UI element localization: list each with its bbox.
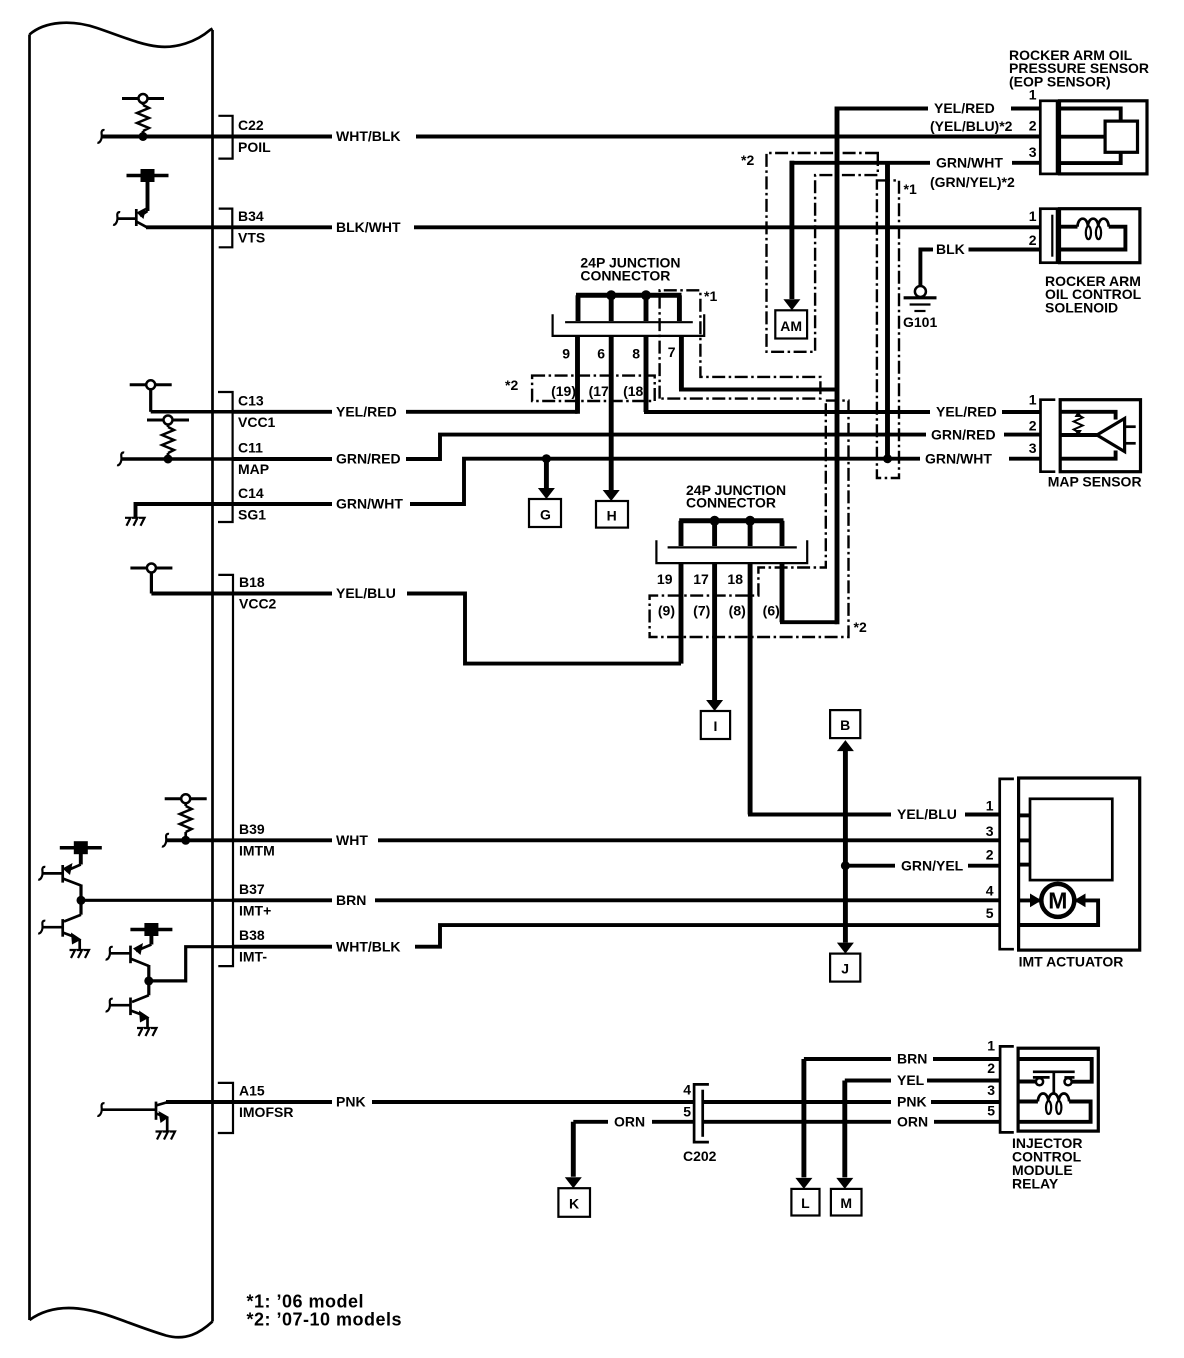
injector control module relay body xyxy=(1018,1048,1098,1131)
svg-text:M: M xyxy=(1048,888,1067,914)
wire B34 VTS inside ECM xyxy=(146,225,233,229)
svg-text:3: 3 xyxy=(986,823,994,839)
svg-text:I: I xyxy=(713,718,717,734)
label ROCKER ARM OIL PRESSURE SENSOR (EOP SENSOR) xyxy=(1009,47,1149,89)
svg-text:2: 2 xyxy=(1029,232,1037,248)
wire C13 VCC1 inside ECM xyxy=(151,410,233,414)
junction dot top bus pin 8 xyxy=(641,290,651,300)
transistor Q5 at B34 with power square xyxy=(113,169,168,227)
svg-text:*1: *1 xyxy=(904,181,917,197)
svg-text:MAP: MAP xyxy=(238,461,269,477)
junction dot G branch on GRN/WHT xyxy=(542,454,551,463)
pin label C14/SG1 xyxy=(238,485,266,522)
transistor Q6 at A15 xyxy=(97,1102,169,1132)
pull-up resistor at B39 xyxy=(165,794,207,840)
wire BLK/WHT from B34 to solenoid pin 1 xyxy=(233,225,1040,229)
wire junction pin 7 (*1 route) to EOP YEL/RED trunk xyxy=(679,336,837,390)
wire junction pin 17 down to arrow I xyxy=(712,563,717,701)
pin label C22/POIL xyxy=(238,117,271,155)
svg-text:YEL/RED: YEL/RED xyxy=(934,100,995,116)
svg-text:AM: AM xyxy=(780,318,802,334)
wire YEL/BLU from B18 to junction pin 19 xyxy=(233,563,681,664)
transistor pair Q3/Q4 at B38 with power square xyxy=(106,923,173,1028)
ECM torn-edge boundary xyxy=(30,23,213,1338)
wire GRN/YEL trunk between arrows B and J xyxy=(843,749,848,943)
ground G101 xyxy=(904,286,937,311)
arrow I xyxy=(701,700,730,739)
junction dot GRN/YEL xyxy=(841,861,850,870)
svg-text:YEL/RED: YEL/RED xyxy=(336,404,397,420)
label 24P JUNCTION CONNECTOR (bottom) xyxy=(686,482,786,511)
junction dot B37 xyxy=(77,896,86,905)
svg-text:CONNECTOR: CONNECTOR xyxy=(686,495,776,511)
svg-text:CONNECTOR: CONNECTOR xyxy=(580,267,670,283)
wire junction pin 18 to IMT actuator pin 1 YEL/BLU xyxy=(748,563,1000,814)
svg-text:C11: C11 xyxy=(238,440,263,456)
5V reference at C13 xyxy=(130,380,172,412)
dash-dot *2 envelope around AM branch xyxy=(767,153,878,352)
transistor pair Q1/Q2 at B37 with power square xyxy=(38,841,102,950)
svg-text:(EOP SENSOR): (EOP SENSOR) xyxy=(1009,73,1111,89)
svg-text:WHT: WHT xyxy=(336,832,368,848)
pin label B38/IMT- xyxy=(239,927,267,965)
svg-text:VTS: VTS xyxy=(238,229,265,245)
svg-text:(YEL/BLU)*2: (YEL/BLU)*2 xyxy=(930,118,1013,134)
pull-up resistor to 5V at C22 xyxy=(122,94,164,137)
wire C14 SG1 inside ECM xyxy=(136,504,234,518)
solenoid connector bracket xyxy=(1040,209,1057,263)
wire GRN/WHT branch (*1) down to GRN/WHT net xyxy=(885,163,890,459)
svg-text:IMTM: IMTM xyxy=(239,842,275,858)
wire junction pin 9 down to YEL/RED xyxy=(575,336,580,414)
svg-text:2: 2 xyxy=(1029,118,1037,134)
ground at A15 xyxy=(156,1132,176,1140)
EOP sensor connector bracket xyxy=(1040,101,1057,174)
svg-text:*2: *2 xyxy=(854,619,867,635)
wire WHT from B39 to IMT actuator pin 3 xyxy=(233,838,1000,842)
svg-text:4: 4 xyxy=(683,1082,691,1098)
svg-text:POIL: POIL xyxy=(238,139,271,155)
svg-text:(19): (19) xyxy=(551,383,576,399)
pull-up resistor at C11 xyxy=(147,416,189,460)
wire B39 IMTM inside ECM xyxy=(162,834,233,847)
pin label B37/IMT+ xyxy=(239,881,271,919)
pin label B39/IMTM xyxy=(239,821,275,859)
svg-text:5: 5 xyxy=(987,1103,995,1119)
wire junction pin 6 down to arrow H xyxy=(609,336,614,490)
svg-text:(7): (7) xyxy=(693,603,710,619)
svg-text:G: G xyxy=(540,507,551,523)
dash-dot *1 envelope around pin 7 wire xyxy=(660,290,821,398)
svg-text:*2: ’07-10 models: *2: ’07-10 models xyxy=(247,1310,403,1330)
ground at B38 driver xyxy=(137,1028,157,1036)
connector bracket C22 xyxy=(218,116,232,159)
wire YEL/RED trunk from EOP pin 1 xyxy=(835,107,1040,625)
svg-text:17: 17 xyxy=(693,571,709,587)
pin label C13/VCC1 xyxy=(238,393,276,430)
svg-text:BRN: BRN xyxy=(336,892,366,908)
junction dot GRN/WHT branch xyxy=(883,454,892,463)
wire BRN from B37 to IMT actuator pin 4 xyxy=(233,898,1000,902)
junction dot B39 xyxy=(181,836,190,845)
MAP sensor body with resistor and amplifier xyxy=(1060,400,1140,472)
junction dot B38 xyxy=(144,976,153,985)
svg-text:GRN/WHT: GRN/WHT xyxy=(925,450,992,466)
arrow G xyxy=(529,459,561,527)
svg-text:(8): (8) xyxy=(729,603,746,619)
svg-text:MAP SENSOR: MAP SENSOR xyxy=(1048,474,1142,490)
svg-text:B34: B34 xyxy=(238,208,264,224)
svg-text:IMT ACTUATOR: IMT ACTUATOR xyxy=(1019,954,1124,970)
svg-text:YEL/RED: YEL/RED xyxy=(936,404,997,420)
svg-text:YEL: YEL xyxy=(897,1072,925,1088)
svg-text:BLK: BLK xyxy=(936,241,965,257)
junction dot C22 xyxy=(139,132,148,141)
svg-text:PNK: PNK xyxy=(897,1094,927,1110)
rocker arm oil pressure sensor body xyxy=(1060,101,1148,174)
wire YEL from relay pin 2 to arrow M xyxy=(845,1079,1000,1083)
IMT actuator body xyxy=(1019,778,1140,950)
in-line connector C202 xyxy=(694,1084,709,1142)
svg-text:(18): (18) xyxy=(623,383,648,399)
svg-text:M: M xyxy=(840,1195,852,1211)
junction dot C11 xyxy=(164,455,173,464)
label ROCKER ARM OIL CONTROL SOLENOID xyxy=(1045,273,1142,315)
svg-text:PNK: PNK xyxy=(336,1094,366,1110)
svg-text:(9): (9) xyxy=(658,603,675,619)
svg-text:1: 1 xyxy=(987,1038,995,1054)
svg-text:9: 9 xyxy=(562,346,570,362)
svg-text:*2: *2 xyxy=(505,377,518,393)
svg-text:H: H xyxy=(607,508,617,524)
svg-text:GRN/WHT: GRN/WHT xyxy=(336,496,403,512)
svg-text:2: 2 xyxy=(986,847,994,863)
dash-dot *2 envelope around junction (6) route xyxy=(650,401,849,637)
svg-text:IMT-: IMT- xyxy=(239,949,267,965)
24P junction connector (top) xyxy=(553,295,705,336)
svg-text:2: 2 xyxy=(987,1060,995,1076)
arrow J xyxy=(830,943,860,982)
svg-text:*2: *2 xyxy=(741,152,754,168)
svg-text:A15: A15 xyxy=(239,1083,265,1099)
svg-text:8: 8 xyxy=(632,346,640,362)
svg-text:K: K xyxy=(569,1196,579,1212)
svg-text:*1: *1 xyxy=(704,288,717,304)
wire C11 MAP inside ECM xyxy=(117,452,233,465)
wire GRN/RED from C11 to MAP sensor pin 2 xyxy=(233,435,1040,459)
svg-text:VCC2: VCC2 xyxy=(239,596,277,612)
wire B38 IMT- inside ECM xyxy=(149,947,233,981)
arrow M xyxy=(831,1081,862,1216)
wire C22 POIL inside ECM xyxy=(97,130,233,143)
svg-text:(6): (6) xyxy=(763,603,780,619)
svg-text:3: 3 xyxy=(1029,440,1037,456)
svg-text:1: 1 xyxy=(1029,392,1037,408)
arrow L xyxy=(791,1059,819,1216)
ground at C14 xyxy=(125,518,145,526)
relay connector bracket xyxy=(1000,1046,1014,1132)
svg-text:GRN/RED: GRN/RED xyxy=(336,451,401,467)
svg-text:WHT/BLK: WHT/BLK xyxy=(336,128,401,144)
svg-text:3: 3 xyxy=(1029,144,1037,160)
svg-text:WHT/BLK: WHT/BLK xyxy=(336,938,401,954)
pin label A15/IMOFSR xyxy=(239,1083,293,1121)
svg-text:VCC1: VCC1 xyxy=(238,414,276,430)
svg-text:B37: B37 xyxy=(239,881,265,897)
MAP sensor connector bracket xyxy=(1041,400,1056,472)
wire GRN/WHT from EOP pin 3 with AM branch xyxy=(790,161,1040,299)
wire GRN/YEL to IMT actuator pin 2 xyxy=(845,864,999,868)
svg-text:1: 1 xyxy=(986,797,994,813)
pin label B34/VTS xyxy=(238,208,265,246)
rocker arm oil control solenoid body with coil xyxy=(1060,209,1140,263)
svg-text:6: 6 xyxy=(597,346,605,362)
wire BLK from solenoid pin 2 to G101 xyxy=(920,250,1040,287)
wire GRN/WHT from C14 to MAP sensor pin 3 xyxy=(233,459,1040,504)
svg-text:C202: C202 xyxy=(683,1148,717,1164)
motor M inside IMT actuator xyxy=(1041,884,1074,917)
svg-text:B39: B39 xyxy=(239,821,265,837)
wire WHT/BLK from B38 to IMT actuator pin 5 xyxy=(233,925,1000,947)
svg-text:BLK/WHT: BLK/WHT xyxy=(336,219,401,235)
arrow K xyxy=(558,1122,590,1217)
svg-text:C22: C22 xyxy=(238,117,264,133)
svg-text:C13: C13 xyxy=(238,393,264,409)
svg-text:B: B xyxy=(840,717,850,733)
svg-text:GRN/WHT: GRN/WHT xyxy=(936,155,1003,171)
svg-text:BRN: BRN xyxy=(897,1051,927,1067)
svg-text:ORN: ORN xyxy=(897,1114,928,1130)
svg-text:7: 7 xyxy=(668,344,676,360)
junction dot top bus pin 6 xyxy=(606,290,616,300)
svg-text:YEL/BLU: YEL/BLU xyxy=(897,806,957,822)
connector bracket A15 xyxy=(218,1083,233,1133)
svg-text:4: 4 xyxy=(986,883,994,899)
ground at B37 driver xyxy=(70,950,90,958)
5V reference at B18 xyxy=(130,564,172,594)
wire A15 IMOFSR inside ECM xyxy=(166,1100,233,1104)
svg-text:L: L xyxy=(801,1195,810,1211)
junction dot bottom bus pin 17 xyxy=(710,516,720,526)
label 24P JUNCTION CONNECTOR (top) xyxy=(580,255,680,284)
svg-text:18: 18 xyxy=(727,571,743,587)
svg-text:3: 3 xyxy=(987,1082,995,1098)
svg-text:IMT+: IMT+ xyxy=(239,902,271,918)
svg-text:C14: C14 xyxy=(238,485,264,501)
dash-dot *1 envelope around GRN/WHT branch xyxy=(877,180,899,478)
svg-text:IMOFSR: IMOFSR xyxy=(239,1104,293,1120)
wire ORN from arrow K through C202 to relay pin 5 xyxy=(573,1120,1000,1124)
connector bracket B18..B38 xyxy=(218,575,233,966)
wire YEL/RED junction pin 8 to MAP sensor pin 1 xyxy=(644,336,1040,412)
wire B18 VCC2 inside ECM xyxy=(151,592,233,596)
junction dot bottom bus pin 18 xyxy=(745,516,755,526)
svg-text:(17): (17) xyxy=(589,383,614,399)
svg-text:B18: B18 xyxy=(239,574,265,590)
svg-text:GRN/YEL: GRN/YEL xyxy=(901,857,964,873)
pin label B18/VCC2 xyxy=(239,574,277,612)
svg-text:SG1: SG1 xyxy=(238,507,266,523)
svg-text:J: J xyxy=(841,961,849,977)
svg-text:5: 5 xyxy=(683,1103,691,1119)
svg-text:*1: ’06 model: *1: ’06 model xyxy=(247,1292,365,1312)
svg-text:(GRN/YEL)*2: (GRN/YEL)*2 xyxy=(930,174,1015,190)
connector bracket C13/C11/C14 xyxy=(218,392,233,522)
svg-text:B38: B38 xyxy=(239,927,265,943)
wire B37 IMT+ inside ECM xyxy=(81,899,233,902)
svg-text:YEL/BLU: YEL/BLU xyxy=(336,585,396,601)
wire BRN from relay pin 1 to arrow L xyxy=(804,1057,1000,1061)
svg-text:19: 19 xyxy=(657,571,673,587)
svg-text:5: 5 xyxy=(986,905,994,921)
24P junction connector (bottom) xyxy=(656,521,807,563)
svg-text:SOLENOID: SOLENOID xyxy=(1045,299,1118,315)
arrow B xyxy=(830,710,860,751)
svg-text:RELAY: RELAY xyxy=(1012,1176,1059,1192)
svg-text:1: 1 xyxy=(1029,208,1037,224)
connector bracket B34 xyxy=(219,209,233,248)
pin label C11/MAP xyxy=(238,440,269,478)
IMT actuator connector bracket xyxy=(1000,779,1014,949)
svg-text:2: 2 xyxy=(1029,417,1037,433)
wire junction pin (6) (*2 route) to EOP YEL/RED trunk xyxy=(780,563,837,622)
wire YEL/RED from C13 to junction pin 9 xyxy=(233,410,578,414)
svg-text:GRN/RED: GRN/RED xyxy=(931,426,996,442)
svg-text:G101: G101 xyxy=(903,314,937,330)
arrow AM xyxy=(775,299,807,338)
svg-text:ORN: ORN xyxy=(614,1114,645,1130)
dash-dot *2 box around (19)(17)(18) xyxy=(532,376,655,401)
arrow H xyxy=(596,490,628,528)
wire WHT/BLK from C22 to EOP sensor pin 2 xyxy=(233,135,1040,139)
wire PNK from A15 through C202 to relay pin 3 xyxy=(233,1100,1000,1104)
label INJECTOR CONTROL MODULE RELAY xyxy=(1012,1135,1083,1192)
